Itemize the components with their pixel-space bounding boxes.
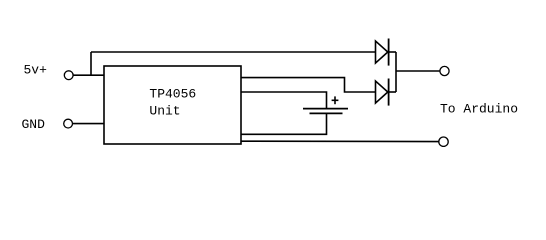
wire GND terminal to TP4056 (73, 123, 105, 125)
wire junction to output terminal (396, 70, 440, 72)
terminal T3 output positive (440, 66, 449, 75)
label TP4056 Unit (149, 86, 196, 118)
svg-text:To Arduino: To Arduino (440, 102, 518, 117)
svg-text:Unit: Unit (149, 103, 180, 118)
svg-text:5v+: 5v+ (24, 62, 48, 77)
wire TP4056 BAT+ to battery (241, 92, 327, 109)
wire battery negative to TP4056 (241, 113, 327, 134)
wire TP4056 OUT to D2 anode (241, 78, 376, 92)
terminal T2 GND input (64, 119, 73, 128)
wire 5v+ terminal to TP4056 (73, 74, 104, 76)
wire riser 5v+ to top rail (90, 52, 92, 75)
wire junction vertical D1-D2 (395, 52, 397, 92)
terminal T1 5v+ input (64, 71, 73, 80)
svg-text:TP4056: TP4056 (149, 86, 196, 101)
wire bottom rail to output terminal (241, 140, 439, 142)
wire D1 cathode to junction (389, 51, 396, 53)
battery B1 (303, 96, 348, 113)
wire top rail to D1 anode (91, 51, 376, 53)
wire D2 cathode to junction (389, 91, 396, 93)
svg-text:GND: GND (22, 117, 46, 132)
diode D2 (376, 79, 389, 106)
terminal T4 output negative (439, 137, 448, 146)
diode D1 (376, 39, 389, 66)
TP4056 unit U1 (104, 66, 241, 144)
